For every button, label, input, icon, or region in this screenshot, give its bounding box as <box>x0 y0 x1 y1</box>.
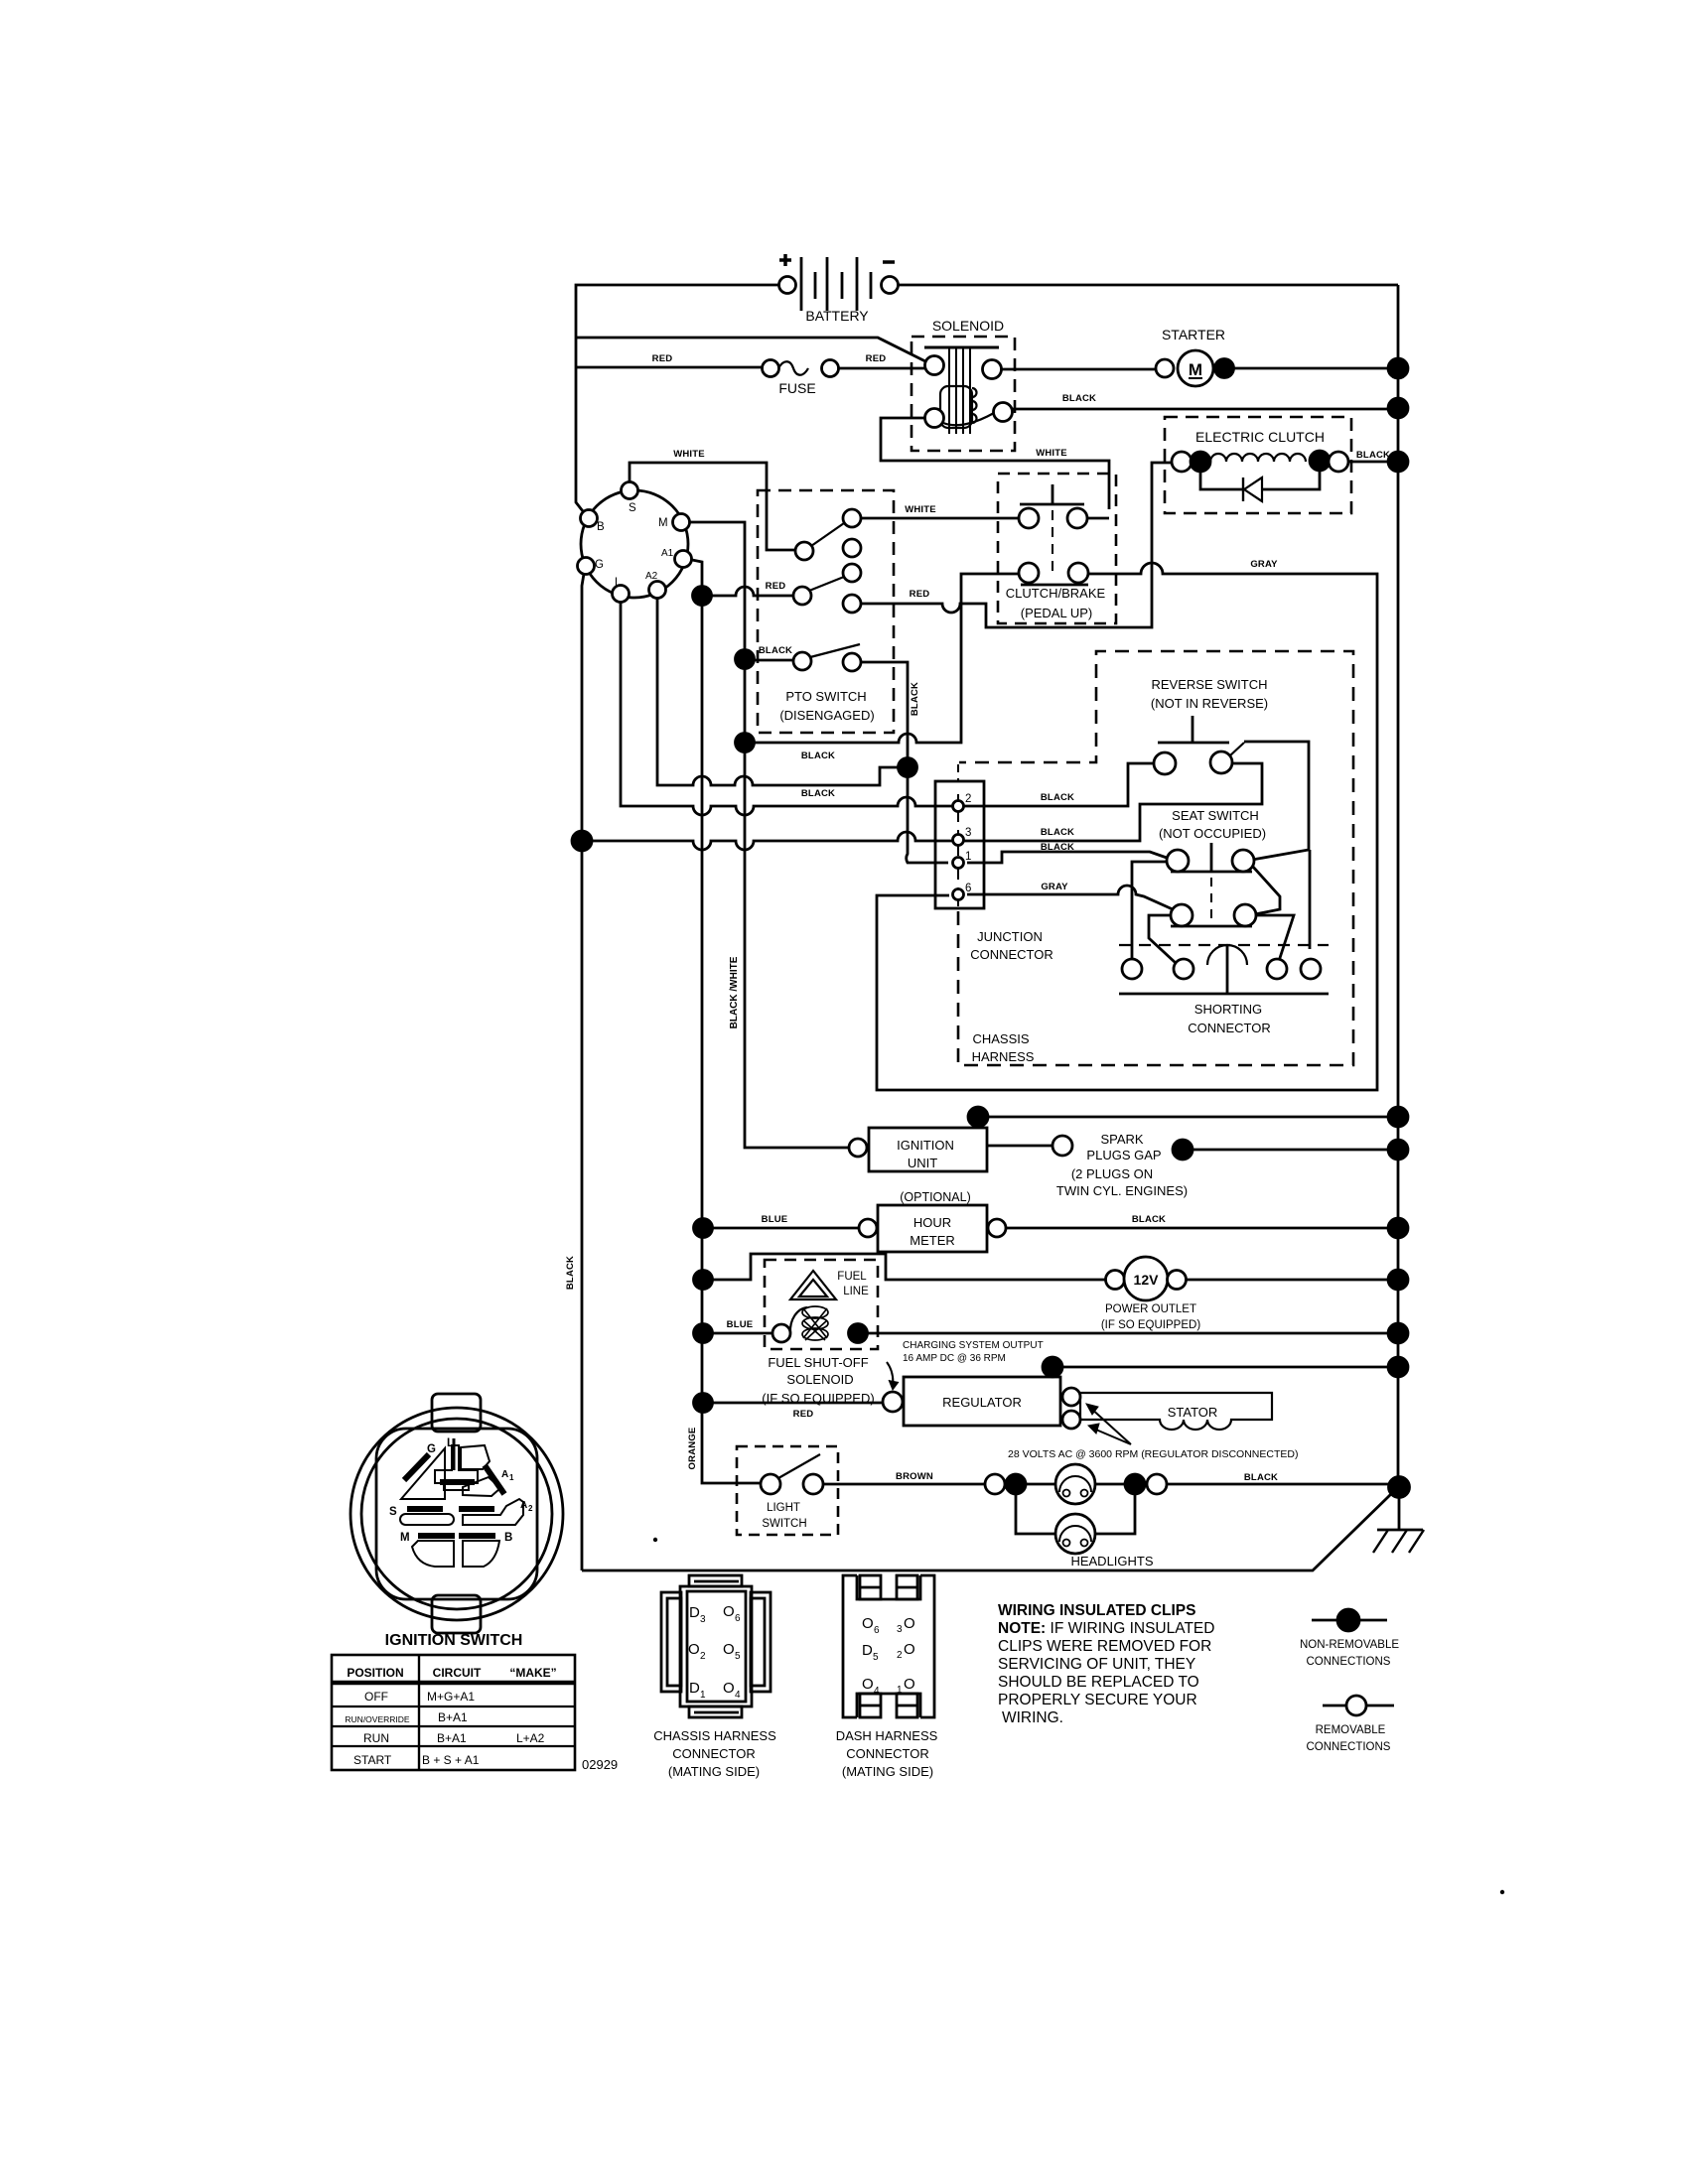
svg-text:REGULATOR: REGULATOR <box>942 1395 1022 1410</box>
svg-text:UNIT: UNIT <box>908 1156 937 1170</box>
wire blue to fuel solenoid <box>712 1332 772 1335</box>
junction dot rail starter <box>1388 358 1408 378</box>
terminal headlight removable <box>1147 1474 1167 1494</box>
clutch/brake (pedal up) <box>998 474 1116 623</box>
svg-text:B: B <box>597 521 605 533</box>
wire ignition unit top to rail <box>988 1116 1398 1119</box>
svg-text:DASH HARNESS: DASH HARNESS <box>836 1728 938 1743</box>
PTO switch (disengaged) <box>758 490 894 733</box>
solenoid U1 <box>912 318 1015 451</box>
junction dot rail spark top <box>1388 1107 1408 1127</box>
svg-text:HEADLIGHTS: HEADLIGHTS <box>1070 1554 1153 1569</box>
wire starter to rail <box>1233 367 1398 370</box>
svg-text:6: 6 <box>965 883 971 894</box>
svg-text:O: O <box>723 1641 735 1658</box>
svg-text:IGNITION: IGNITION <box>897 1138 954 1153</box>
fuel line arrow symbol <box>790 1271 836 1299</box>
svg-text:D: D <box>862 1642 873 1659</box>
wire PTO black down <box>861 662 948 863</box>
svg-text:28 VOLTS AC @ 3600 RPM (REGULA: 28 VOLTS AC @ 3600 RPM (REGULATOR DISCON… <box>1008 1448 1298 1460</box>
svg-text:L: L <box>615 577 622 589</box>
junction dot pto black A2 <box>899 758 917 777</box>
wire solenoid to starter <box>1001 368 1156 371</box>
svg-text:3: 3 <box>965 827 971 839</box>
svg-text:SOLENOID: SOLENOID <box>786 1372 853 1387</box>
svg-text:(IF SO EQUIPPED): (IF SO EQUIPPED) <box>1101 1319 1200 1331</box>
svg-text:B + S + A1: B + S + A1 <box>422 1753 480 1767</box>
svg-text:BLACK: BLACK <box>1356 450 1390 461</box>
headlight 2 parallel branch <box>1016 1484 1135 1554</box>
wire spark to rail <box>1193 1149 1398 1152</box>
junction dot rail spark <box>1388 1140 1408 1160</box>
junction dot left rail pin3 <box>572 831 592 851</box>
svg-text:BLACK: BLACK <box>1041 792 1074 803</box>
svg-text:2: 2 <box>700 1651 706 1662</box>
svg-text:CLUTCH/BRAKE: CLUTCH/BRAKE <box>1006 586 1106 601</box>
svg-text:O: O <box>723 1603 735 1620</box>
svg-text:BLACK: BLACK <box>1062 393 1096 404</box>
junction dot headlight right <box>1125 1474 1145 1494</box>
svg-text:CONNECTIONS: CONNECTIONS <box>1307 1656 1391 1668</box>
wire 12v to rail <box>1187 1279 1398 1282</box>
svg-text:PTO SWITCH: PTO SWITCH <box>785 689 866 704</box>
svg-text:SOLENOID: SOLENOID <box>932 318 1004 334</box>
svg-text:(MATING SIDE): (MATING SIDE) <box>668 1764 760 1779</box>
svg-text:ELECTRIC CLUTCH: ELECTRIC CLUTCH <box>1195 429 1325 445</box>
svg-text:WHITE: WHITE <box>905 504 936 515</box>
svg-text:RED: RED <box>793 1409 814 1420</box>
right rail <box>1397 285 1400 1487</box>
junction dot M clutchbrake wire <box>736 734 755 752</box>
svg-text:1: 1 <box>700 1690 706 1701</box>
svg-text:CONNECTOR: CONNECTOR <box>970 947 1053 962</box>
svg-text:16 AMP DC @ 36 RPM: 16 AMP DC @ 36 RPM <box>903 1353 1006 1364</box>
junction dot headlight left <box>1006 1474 1026 1494</box>
svg-text:CLIPS WERE REMOVED FOR: CLIPS WERE REMOVED FOR <box>998 1638 1211 1655</box>
svg-text:WHITE: WHITE <box>673 449 705 460</box>
svg-text:CIRCUIT: CIRCUIT <box>433 1666 482 1680</box>
svg-text:CHASSIS HARNESS: CHASSIS HARNESS <box>653 1728 776 1743</box>
wire M dot to clutch brake switch <box>754 574 1019 743</box>
svg-text:G: G <box>427 1443 436 1455</box>
svg-text:SHORTING: SHORTING <box>1194 1002 1262 1017</box>
wire fuse feed <box>576 366 762 369</box>
wire blue to hour meter <box>712 1227 859 1230</box>
svg-text:CHASSIS: CHASSIS <box>972 1031 1029 1046</box>
wire gray clutch brake loop <box>877 563 1377 1090</box>
wire pin3 black to reverse switch <box>592 763 1262 850</box>
svg-text:B+A1: B+A1 <box>438 1710 468 1724</box>
wire A1 down <box>692 560 762 1483</box>
wire L to junction pin 2 and reverse switch <box>621 603 1156 815</box>
wire red A1 to PTO <box>711 587 793 596</box>
svg-text:02929: 02929 <box>582 1757 618 1772</box>
wire headlights to rail <box>1167 1483 1390 1486</box>
svg-text:JUNCTION: JUNCTION <box>977 929 1043 944</box>
wire seat TL to shorting pin1 <box>1132 862 1167 959</box>
junction dot rail solenoid black <box>1388 398 1408 418</box>
svg-text:O: O <box>688 1641 700 1658</box>
svg-text:OFF: OFF <box>364 1690 388 1704</box>
svg-text:POSITION: POSITION <box>347 1666 403 1680</box>
dash harness connector drawing <box>843 1575 934 1717</box>
svg-text:POWER OUTLET: POWER OUTLET <box>1105 1303 1196 1315</box>
legend non-removable connections <box>1300 1609 1399 1668</box>
svg-text:(DISENGAGED): (DISENGAGED) <box>779 708 874 723</box>
terminal spark gap left <box>1052 1136 1072 1156</box>
wire regulator to rail <box>1062 1366 1398 1369</box>
svg-text:BLACK: BLACK <box>759 645 792 656</box>
svg-text:A2: A2 <box>645 571 658 582</box>
svg-text:CONNECTOR: CONNECTOR <box>846 1746 929 1761</box>
svg-text:HARNESS: HARNESS <box>972 1049 1035 1064</box>
junction connector box <box>935 764 984 908</box>
spark plugs gap <box>1056 1132 1193 1198</box>
svg-text:GRAY: GRAY <box>1041 882 1068 892</box>
wire seat top right down branch <box>1252 866 1280 914</box>
starter motor <box>1156 327 1234 386</box>
junction dot A1 red <box>693 587 712 606</box>
light switch <box>737 1446 838 1535</box>
svg-text:REVERSE SWITCH: REVERSE SWITCH <box>1151 677 1267 692</box>
ignition switch rotary symbol <box>578 482 692 603</box>
ignition switch connector drawing <box>351 1394 563 1633</box>
regulator <box>883 1357 1080 1429</box>
svg-text:M+G+A1: M+G+A1 <box>427 1690 475 1704</box>
svg-text:(PEDAL UP): (PEDAL UP) <box>1021 606 1092 620</box>
ignition unit <box>849 1128 987 1171</box>
junction dot red regulator <box>694 1394 713 1413</box>
svg-text:B+A1: B+A1 <box>437 1731 467 1745</box>
svg-text:CONNECTOR: CONNECTOR <box>1188 1021 1271 1035</box>
svg-text:START: START <box>353 1753 392 1767</box>
bottom return line <box>582 1493 1392 1570</box>
svg-text:1: 1 <box>509 1473 514 1482</box>
svg-text:STATOR: STATOR <box>1168 1405 1218 1420</box>
svg-text:S: S <box>389 1506 397 1518</box>
wire S white <box>630 463 795 550</box>
svg-text:3: 3 <box>700 1614 706 1625</box>
junction dot rail clutch <box>1388 452 1408 472</box>
svg-text:BLACK: BLACK <box>801 788 835 799</box>
wire to 12v outlet stepping over fuel box <box>712 1254 1105 1280</box>
svg-text:WHITE: WHITE <box>1036 448 1067 459</box>
svg-text:6: 6 <box>735 1613 741 1624</box>
terminal fuel solenoid removable <box>772 1324 790 1342</box>
svg-text:M: M <box>1189 360 1202 379</box>
svg-text:RED: RED <box>766 581 786 592</box>
wire battery minus to right rail <box>899 284 1398 287</box>
legend removable connections <box>1307 1696 1394 1753</box>
fuse <box>763 360 839 397</box>
svg-text:D: D <box>689 1604 700 1621</box>
svg-text:A: A <box>501 1469 508 1480</box>
svg-text:REMOVABLE: REMOVABLE <box>1316 1724 1386 1736</box>
svg-text:O: O <box>904 1615 915 1632</box>
fuel shut-off solenoid coil <box>790 1306 828 1340</box>
svg-text:4: 4 <box>874 1686 880 1697</box>
svg-text:NOTE: IF WIRING INSULATED: NOTE: IF WIRING INSULATED <box>998 1620 1214 1637</box>
svg-text:(2 PLUGS ON: (2 PLUGS ON <box>1071 1166 1153 1181</box>
arrows 28 volts <box>1089 1407 1131 1444</box>
svg-text:LINE: LINE <box>843 1286 869 1297</box>
svg-text:O: O <box>904 1676 915 1693</box>
wire brown to headlights <box>823 1483 985 1486</box>
wire solenoid switched output black to rail <box>1012 408 1398 411</box>
svg-text:GRAY: GRAY <box>1250 559 1278 570</box>
wire black M to PTO <box>754 659 793 662</box>
headlight 1 <box>1026 1464 1125 1504</box>
svg-text:5: 5 <box>873 1652 879 1663</box>
svg-text:RUN/OVERRIDE: RUN/OVERRIDE <box>345 1714 410 1724</box>
junction dot fuel top <box>694 1271 713 1290</box>
svg-text:S: S <box>629 502 636 514</box>
svg-text:BLUE: BLUE <box>762 1214 788 1225</box>
svg-text:3: 3 <box>897 1624 903 1635</box>
diode D1 electric clutch <box>1200 471 1320 501</box>
svg-text:L+A2: L+A2 <box>516 1731 545 1745</box>
junction dot M black pto <box>736 650 755 669</box>
svg-text:1: 1 <box>897 1685 903 1696</box>
svg-text:FUEL SHUT-OFF: FUEL SHUT-OFF <box>768 1355 868 1370</box>
scan artifact dot <box>1500 1890 1504 1894</box>
svg-text:6: 6 <box>874 1625 880 1636</box>
svg-text:(NOT OCCUPIED): (NOT OCCUPIED) <box>1159 826 1266 841</box>
svg-text:“MAKE”: “MAKE” <box>509 1666 556 1680</box>
svg-text:A1: A1 <box>661 548 674 559</box>
svg-text:(MATING SIDE): (MATING SIDE) <box>842 1764 933 1779</box>
svg-text:CONNECTIONS: CONNECTIONS <box>1307 1741 1391 1753</box>
svg-text:METER: METER <box>910 1233 955 1248</box>
reverse switch (not in reverse) <box>1151 677 1268 774</box>
wire ignition unit output <box>987 1145 1052 1148</box>
stator <box>1080 1393 1272 1430</box>
svg-text:BLACK: BLACK <box>910 682 920 716</box>
wire fuel solenoid to rail <box>867 1332 1398 1335</box>
svg-text:PLUGS GAP: PLUGS GAP <box>1086 1148 1161 1162</box>
svg-text:SHOULD BE REPLACED TO: SHOULD BE REPLACED TO <box>998 1674 1199 1691</box>
battery <box>779 254 899 324</box>
svg-text:SPARK: SPARK <box>1100 1132 1143 1147</box>
svg-text:SWITCH: SWITCH <box>762 1518 806 1530</box>
svg-text:TWIN CYL. ENGINES): TWIN CYL. ENGINES) <box>1056 1183 1188 1198</box>
svg-text:BLACK: BLACK <box>801 751 835 761</box>
svg-text:RUN: RUN <box>363 1731 389 1745</box>
svg-text:O: O <box>723 1680 735 1697</box>
wire branch to solenoid input <box>576 338 925 361</box>
svg-text:CONNECTOR: CONNECTOR <box>672 1746 756 1761</box>
fuel line dashed box <box>765 1260 878 1349</box>
electric clutch <box>1165 417 1390 513</box>
svg-text:WIRING INSULATED CLIPS: WIRING INSULATED CLIPS <box>998 1602 1196 1619</box>
svg-text:2: 2 <box>965 793 971 805</box>
svg-text:2: 2 <box>897 1650 903 1661</box>
svg-text:RED: RED <box>866 353 887 364</box>
wire clutch to rail <box>1348 461 1398 464</box>
svg-text:5: 5 <box>735 1651 741 1662</box>
svg-text:NON-REMOVABLE: NON-REMOVABLE <box>1300 1639 1399 1651</box>
wire seat LR to shorting pin3 <box>1256 915 1294 961</box>
12v power outlet <box>1101 1257 1200 1331</box>
svg-text:(OPTIONAL): (OPTIONAL) <box>900 1190 971 1204</box>
svg-text:WIRING.: WIRING. <box>1002 1709 1063 1726</box>
svg-text:IGNITION SWITCH: IGNITION SWITCH <box>385 1632 523 1649</box>
svg-text:BLACK: BLACK <box>1132 1214 1166 1225</box>
svg-text:LIGHT: LIGHT <box>767 1502 800 1514</box>
wire PTO red to electric clutch <box>861 463 1172 627</box>
svg-text:BLUE: BLUE <box>727 1319 754 1330</box>
scan artifact dot <box>653 1538 657 1542</box>
svg-text:STARTER: STARTER <box>1162 327 1225 342</box>
svg-text:4: 4 <box>735 1690 741 1701</box>
svg-text:SEAT SWITCH: SEAT SWITCH <box>1172 808 1259 823</box>
chassis harness connector drawing <box>661 1575 771 1717</box>
wire pin1 to seat switch <box>967 852 1167 863</box>
junction dot rail 12v <box>1388 1270 1408 1290</box>
svg-text:BLACK: BLACK <box>1244 1472 1278 1483</box>
terminal headlight feed removable <box>985 1474 1005 1494</box>
svg-text:M: M <box>658 517 668 529</box>
svg-text:G: G <box>595 559 604 571</box>
junction dot ignition unit top <box>968 1107 988 1127</box>
junction dot fuel solenoid output <box>849 1324 868 1343</box>
svg-text:RED: RED <box>652 353 673 364</box>
svg-text:BLACK: BLACK <box>565 1256 576 1290</box>
junction dot rail fuel <box>1388 1323 1408 1343</box>
svg-text:HOUR: HOUR <box>913 1215 951 1230</box>
ground junction dot <box>1389 1477 1410 1498</box>
wire seat LL to shorting pin2 <box>1149 915 1176 963</box>
wire battery plus to left rail down to ignition B <box>576 285 778 511</box>
junction dot rail regulator <box>1388 1357 1408 1377</box>
svg-text:SERVICING OF UNIT, THEY: SERVICING OF UNIT, THEY <box>998 1656 1195 1673</box>
svg-text:O: O <box>862 1676 874 1693</box>
svg-text:ORANGE: ORANGE <box>687 1428 698 1470</box>
wire red to regulator <box>712 1402 883 1405</box>
wire pin6 gray to seat switch <box>967 886 1173 909</box>
wire reverse blade to seat switch <box>1244 742 1309 860</box>
svg-text:B: B <box>504 1532 512 1544</box>
wire PTO white to clutch brake <box>861 517 1019 520</box>
ground symbol <box>1373 1487 1424 1553</box>
svg-text:PROPERLY SECURE YOUR: PROPERLY SECURE YOUR <box>998 1692 1197 1708</box>
svg-text:O: O <box>904 1641 915 1658</box>
junction dot rail hour meter <box>1388 1218 1408 1238</box>
shorting connector <box>1119 945 1329 1035</box>
seat switch (not occupied) <box>1159 808 1266 926</box>
svg-text:O: O <box>862 1615 874 1632</box>
hour meter (optional) <box>859 1190 1006 1252</box>
junction dot blue fuel <box>694 1324 713 1343</box>
wire G down left rail <box>582 574 584 1570</box>
chassis harness dashed outline <box>958 651 1353 1065</box>
wire solenoid coil low side white <box>881 418 1109 509</box>
vertical to shorting pin4 <box>1309 850 1312 949</box>
svg-text:2: 2 <box>528 1504 533 1513</box>
wiring insulated clips note <box>998 1602 1214 1726</box>
wire clutch brake right up to solenoid white <box>1087 517 1109 520</box>
svg-text:12V: 12V <box>1134 1272 1160 1288</box>
svg-text:M: M <box>400 1532 410 1544</box>
wire M to black/white vertical <box>690 522 849 1148</box>
svg-text:BROWN: BROWN <box>896 1471 933 1482</box>
svg-text:FUSE: FUSE <box>778 380 815 396</box>
svg-text:FUEL: FUEL <box>837 1271 867 1283</box>
svg-text:CHARGING SYSTEM OUTPUT: CHARGING SYSTEM OUTPUT <box>903 1340 1044 1351</box>
svg-text:BLACK /WHITE: BLACK /WHITE <box>729 956 740 1028</box>
svg-text:RED: RED <box>910 589 930 600</box>
svg-text:1: 1 <box>965 851 971 863</box>
junction dot blue hour meter <box>694 1219 713 1238</box>
wire A2 black <box>657 599 898 785</box>
wire fuse to solenoid <box>839 367 924 370</box>
svg-text:BLACK: BLACK <box>1041 827 1074 838</box>
wire hour meter to rail <box>1006 1227 1398 1230</box>
svg-text:BATTERY: BATTERY <box>805 308 869 324</box>
svg-text:D: D <box>689 1680 700 1697</box>
ignition switch table <box>332 1655 575 1770</box>
svg-text:(NOT IN REVERSE): (NOT IN REVERSE) <box>1151 696 1268 711</box>
